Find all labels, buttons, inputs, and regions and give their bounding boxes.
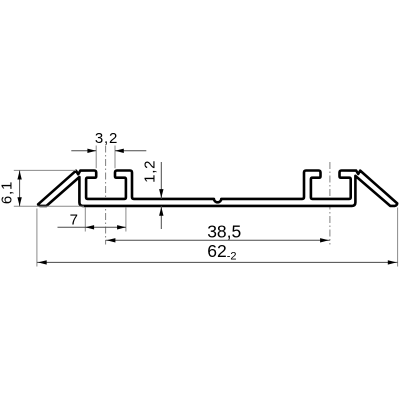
centerline left slot — [105, 146, 107, 245]
dim 1,2 leaders and arrows — [160, 162, 162, 199]
centerline right slot — [329, 162, 331, 245]
svg-text:7: 7 — [70, 211, 78, 228]
dim 3,2 extension lines — [95, 146, 97, 169]
dim 62 dimension line — [37, 261, 398, 263]
svg-text:38,5: 38,5 — [207, 221, 241, 241]
svg-text:6,1: 6,1 — [0, 181, 16, 204]
dim 6,1 extension lines — [14, 169, 76, 171]
dim 7 extension lines — [84, 208, 86, 232]
dim 62 extension lines — [36, 209, 38, 267]
svg-text:1,2: 1,2 — [141, 160, 158, 183]
dim 38,5 dimension line — [106, 239, 330, 241]
dim 3,2 leaders and arrows — [71, 150, 96, 152]
profile outline — [38, 171, 397, 206]
dim 6,1 dimension line — [19, 170, 21, 206]
dim 7 dimension line — [58, 226, 126, 228]
svg-text:3,2: 3,2 — [95, 130, 118, 147]
